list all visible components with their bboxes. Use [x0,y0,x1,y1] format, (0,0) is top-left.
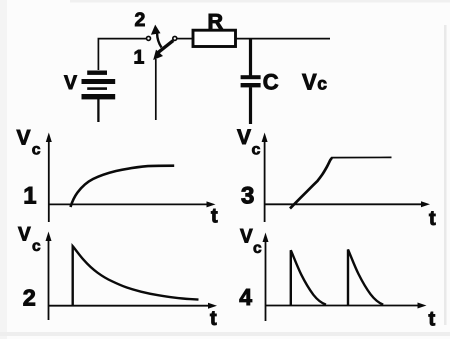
svg-text:C: C [263,70,279,95]
graph 4 x-axis arrowhead [418,303,427,309]
graph 2 y-axis [48,235,50,320]
switch pivot contact (circle) [173,36,177,40]
svg-text:V: V [18,225,31,246]
graph 4 x-axis [266,305,424,307]
graph 1 x-axis arrowhead [207,201,216,207]
graph 2 x-axis arrowhead [208,303,217,309]
wire capacitor bottom [249,87,252,124]
graph 3 y-axis arrowhead [262,133,268,143]
graph 4 curve spike 2 [348,250,383,306]
svg-text:1: 1 [134,47,145,69]
svg-text:c: c [253,240,262,257]
wire switch pivot to resistor R [177,38,193,40]
switch arm [158,41,173,53]
graph 1 y-axis arrowhead [46,133,52,143]
graph 3 x-axis arrowhead [421,201,430,207]
graph 4 y-axis [265,236,267,321]
graph 1 y-axis [48,136,50,222]
wire battery top to switch contact 2 [98,39,146,70]
resistor R [193,30,236,46]
svg-text:V: V [17,127,31,150]
switch motion arrowhead [151,25,161,35]
wire battery bottom [97,99,99,122]
wire capacitor top [249,39,252,76]
graph 4 curve spike 1 [291,250,326,305]
switch motion arrow [157,34,161,48]
graph 4 y-axis arrowhead [263,233,269,243]
svg-text:4: 4 [239,284,252,310]
svg-text:c: c [32,142,41,159]
svg-text:t: t [211,206,218,228]
bottom edge scan band [0,332,450,336]
svg-text:c: c [32,238,41,255]
svg-text:3: 3 [241,182,254,209]
svg-text:R: R [208,9,224,33]
graph 1 x-axis [49,203,212,205]
left edge scan band [0,0,7,339]
switch arm arrowhead [153,50,163,60]
graph 2 curve (discharge spike) [73,246,199,306]
capacitor C [241,75,261,87]
right edge scan band [444,25,447,325]
svg-text:t: t [210,308,217,330]
wire resistor R to top-right [236,38,331,40]
graph 3 y-axis [264,136,266,222]
graph 3 x-axis [265,203,427,205]
svg-text:Vc: Vc [302,70,327,95]
wire switch position 1 down [155,59,157,120]
svg-text:t: t [429,309,436,331]
graph 3 curve (ramp then flat) [290,158,332,209]
svg-text:c: c [252,142,261,159]
top edge scan band [70,0,450,3]
svg-text:V: V [240,227,253,248]
switch contact 2 (circle) [147,36,151,40]
svg-text:1: 1 [23,183,36,210]
svg-text:2: 2 [23,285,36,311]
graph 2 y-axis arrowhead [46,232,52,242]
svg-text:2: 2 [135,9,146,31]
graph 1 curve (charging exponential) [71,166,175,207]
svg-text:V: V [64,72,77,94]
graph 2 x-axis [49,305,214,307]
svg-text:V: V [237,126,251,149]
battery V [82,71,116,100]
graph 3 plateau line [332,156,392,158]
svg-text:t: t [429,208,436,230]
